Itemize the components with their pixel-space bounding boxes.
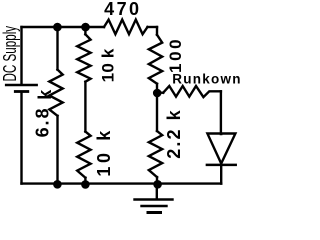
wire 100 bottom lead [156, 84, 158, 93]
resistor R-100 zigzag [149, 35, 162, 84]
svg-text:470: 470 [104, 0, 141, 19]
ground bar 2 [142, 205, 167, 207]
wire bottom horizontal [22, 182, 222, 184]
node dot mid right [153, 89, 162, 98]
wire 6.8k top lead [56, 27, 58, 70]
wire 2.2k top lead [156, 93, 158, 131]
node dot bottom ground [153, 180, 162, 189]
node dot top 10k [81, 23, 90, 32]
wire 10k bottom lead [84, 178, 86, 184]
resistor R-2.2k zigzag [149, 131, 162, 177]
wire runknown right lead down [220, 91, 223, 134]
wire 6.8k bottom lead [56, 116, 58, 184]
ground bar 1 [135, 198, 173, 200]
diode D1 triangle [207, 134, 235, 164]
wire 100 top lead [156, 27, 158, 35]
wire 10k middle lead [84, 82, 86, 132]
node dot top 6.8k [53, 23, 62, 32]
resistor R-470 zigzag [104, 20, 148, 35]
battery B1 plate short [15, 90, 27, 93]
resistor R-10k-1 zigzag [77, 34, 90, 81]
svg-text:6.8 k: 6.8 k [32, 88, 55, 138]
wire top horizontal left [22, 26, 105, 28]
svg-text:10 k: 10 k [99, 48, 118, 82]
wire battery bottom lead [20, 93, 22, 184]
wire diode bottom lead [220, 166, 222, 184]
wire 2.2k bottom lead [156, 177, 158, 184]
battery B1 plate long [6, 84, 37, 86]
svg-text:10 k: 10 k [94, 127, 114, 176]
ground bar 3 [148, 211, 161, 214]
diode D1 cathode bar [207, 164, 236, 167]
wire 10k top lead [84, 27, 86, 34]
resistor R-6.8k zigzag [49, 70, 62, 116]
svg-text:100: 100 [166, 37, 185, 73]
svg-text:2.2 k: 2.2 k [164, 108, 184, 159]
svg-text:DC Supply: DC Supply [1, 26, 21, 82]
resistor R-unknown zigzag [163, 86, 221, 97]
node dot bottom 6.8k [53, 180, 62, 189]
wire runknown left lead [157, 91, 163, 93]
wire battery top lead [20, 27, 22, 84]
node dot bottom 10k [81, 180, 90, 189]
wire top horizontal right [148, 26, 158, 28]
resistor R-10k-2 zigzag [77, 132, 90, 178]
ground stem [156, 184, 158, 199]
